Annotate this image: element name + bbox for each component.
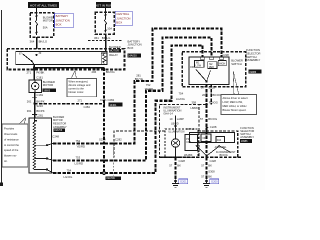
svg-text:C228: C228 <box>179 159 186 163</box>
svg-text:Allows driver to select: Allows driver to select <box>223 96 248 100</box>
battery junction box main enclosure (dashed) <box>7 49 124 70</box>
svg-text:LG/OG: LG/OG <box>176 97 185 101</box>
svg-text:358: 358 <box>192 100 197 104</box>
svg-text:G201: G201 <box>180 180 187 184</box>
wire 364 BK/LG <box>30 37 48 49</box>
svg-text:361: 361 <box>94 36 99 40</box>
label BLOWER SWITCH <box>231 58 243 65</box>
wire 296 BK/OG relay branch down <box>92 68 115 174</box>
node relay output junction <box>33 67 35 69</box>
callout: provides three levels of resistance <box>2 118 28 168</box>
svg-text:A/C PANEL: A/C PANEL <box>215 146 228 149</box>
svg-text:S216: S216 <box>36 104 43 108</box>
svg-text:19A706: 19A706 <box>54 129 63 132</box>
svg-text:BK/LG: BK/LG <box>102 36 111 40</box>
svg-text:BK: BK <box>208 164 212 168</box>
relay contact 30 <box>35 54 37 56</box>
svg-text:361: 361 <box>27 109 32 113</box>
connector C270 line across wire 361 <box>88 39 122 41</box>
fuse F1.11 50A <box>36 14 55 36</box>
wire 57 through selector <box>206 131 208 157</box>
power tag HOT AT ALL TIMES <box>28 2 59 8</box>
connector C228 row (dashed) <box>160 153 242 157</box>
callout: when energized directs voltage <box>67 71 97 97</box>
svg-text:GHA-14: GHA-14 <box>163 112 173 116</box>
svg-text:S308: S308 <box>208 169 215 173</box>
svg-text:271: 271 <box>27 71 32 75</box>
selector sub box 1 <box>201 134 211 142</box>
ground G201 (lamp) <box>172 179 188 187</box>
connector arrow into selector <box>205 125 208 128</box>
fuse 10A <box>105 13 113 33</box>
wire relay output to motor <box>33 64 35 80</box>
svg-text:BOX: BOX <box>128 46 134 50</box>
terminal marks at switch inputs <box>201 57 223 60</box>
node bottom-left frame dot <box>0 183 3 186</box>
svg-text:S230: S230 <box>99 137 106 141</box>
splice S216 dot on motor wire <box>33 103 35 105</box>
svg-text:MOTOR: MOTOR <box>43 83 53 87</box>
svg-text:261: 261 <box>27 99 32 103</box>
svg-text:blower mo-: blower mo- <box>4 154 17 158</box>
svg-text:752: 752 <box>76 139 81 143</box>
svg-text:57: 57 <box>169 164 172 168</box>
resistor tap 3 <box>35 169 54 174</box>
svg-text:271: 271 <box>78 99 83 103</box>
svg-text:directs voltage and: directs voltage and <box>69 83 91 87</box>
label FUNCTION SELECTOR SWITCH ASSEMBLY (bottom right) w/ tag <box>240 126 254 143</box>
svg-text:LB/RD: LB/RD <box>191 106 199 110</box>
blower switch body <box>189 57 229 84</box>
wire 271 PK/BK motor feed labels <box>27 71 45 80</box>
svg-text:19986: 19986 <box>249 71 257 74</box>
svg-text:19986: 19986 <box>241 140 248 143</box>
svg-text:three levels: three levels <box>4 132 18 136</box>
svg-text:C228: C228 <box>210 125 217 129</box>
terminal M2 MED <box>208 62 217 69</box>
wire 57 blower switch output <box>201 84 215 104</box>
wire 19 LB/RD lamp feed <box>170 116 185 139</box>
svg-text:BK/PK: BK/PK <box>36 109 44 113</box>
selector texts <box>215 146 236 154</box>
svg-text:MOTOR: MOTOR <box>43 19 53 23</box>
svg-text:blower motor.: blower motor. <box>69 90 85 94</box>
svg-text:LOW, MED LOW,: LOW, MED LOW, <box>223 100 243 104</box>
svg-text:BOX: BOX <box>116 21 122 25</box>
svg-text:BLOWER: BLOWER <box>53 115 64 119</box>
svg-text:ILLUMINATION: ILLUMINATION <box>169 130 185 133</box>
svg-text:OFF LO: OFF LO <box>186 128 195 131</box>
svg-text:19805: 19805 <box>43 89 50 92</box>
wire C labels 754 LG/OG <box>64 168 73 178</box>
connector C248 line (resistor box right edge, dashed) <box>52 118 60 173</box>
svg-text:262: 262 <box>202 93 207 97</box>
svg-text:C228: C228 <box>223 53 230 57</box>
svg-text:C281 C282: C281 C282 <box>100 98 115 102</box>
terminal HIGH <box>218 61 226 66</box>
wire 57 BK switch ground w/ splice S308 <box>201 157 216 181</box>
wire stub from HOT IN RUN tag <box>105 8 107 12</box>
switch wiper <box>196 70 211 83</box>
wire 57 BK lamp ground <box>169 157 185 181</box>
wire A labels 281 BK/YE <box>135 74 143 82</box>
function selector switch body <box>190 133 235 143</box>
svg-text:MOTOR: MOTOR <box>110 50 119 53</box>
svg-text:57: 57 <box>201 86 205 90</box>
svg-text:of resistance: of resistance <box>4 137 19 141</box>
svg-text:speed of the: speed of the <box>4 148 19 152</box>
node label BATTERY JUNCTION BOX (blue callout) <box>55 13 74 28</box>
svg-text:BK/YE: BK/YE <box>135 77 143 81</box>
svg-text:BK: BK <box>177 164 181 168</box>
svg-text:MOTOR: MOTOR <box>53 118 63 122</box>
svg-text:current to the: current to the <box>69 86 85 90</box>
svg-text:PK/BK: PK/BK <box>36 71 44 75</box>
svg-text:OFF: OFF <box>190 66 195 69</box>
battery junction box (fuse F1.11 enclosure, dashed) <box>30 13 54 38</box>
frame left edge <box>0 10 2 185</box>
svg-text:LOW: LOW <box>196 65 202 68</box>
reference tag under wire C <box>105 176 121 180</box>
svg-text:C284: C284 <box>84 105 91 109</box>
blower switch enclosure (dashed) <box>182 52 246 87</box>
svg-text:Provides: Provides <box>4 127 15 131</box>
svg-text:MED HIGH, or HIGH: MED HIGH, or HIGH <box>223 104 247 108</box>
svg-text:LG/RD: LG/RD <box>75 162 84 166</box>
svg-text:HOT AT ALL TIMES: HOT AT ALL TIMES <box>30 3 57 7</box>
wire 57 BK/OG down to selector <box>200 105 217 131</box>
label INSTRUMENT ILLUMINATION <box>163 106 181 116</box>
wire B labels 753 LG/RD <box>75 155 84 165</box>
svg-text:RD/OG: RD/OG <box>209 101 218 105</box>
central junction box (fuse enclosure, dashed) <box>95 12 114 34</box>
svg-text:SELECTOR: SELECTOR <box>246 51 260 55</box>
node junction wire 296 joins wire C <box>103 172 106 175</box>
svg-text:YE/RD: YE/RD <box>77 145 86 149</box>
svg-text:SWITCH: SWITCH <box>246 55 257 59</box>
relay armature <box>23 54 32 61</box>
svg-text:C181: C181 <box>36 93 43 97</box>
illumination lamp <box>171 139 179 147</box>
svg-text:FLR: FLR <box>217 140 222 142</box>
label FUNCTION SELECTOR SWITCH ASSEMBLY (top right) w/ tag <box>246 48 262 74</box>
blower motor resistor assembly box <box>29 118 52 173</box>
splice S230 on wire A <box>99 137 122 144</box>
instrument illumination enclosure (dashed) <box>160 105 200 158</box>
svg-text:754: 754 <box>67 168 72 172</box>
svg-text:BK: BK <box>208 175 212 179</box>
svg-text:LB/RD: LB/RD <box>171 121 179 125</box>
svg-text:RELAY: RELAY <box>109 53 118 57</box>
lamp feed arrow <box>174 126 177 129</box>
printed circuit sub box <box>185 135 198 151</box>
resistor tap 1 <box>35 144 54 147</box>
callout: allows driver to select speeds <box>221 71 257 115</box>
svg-text:BLOWER: BLOWER <box>231 58 243 62</box>
svg-text:ASSEMBLY: ASSEMBLY <box>53 125 67 129</box>
svg-text:HOT IN RUN: HOT IN RUN <box>95 3 112 7</box>
svg-text:57: 57 <box>201 164 204 168</box>
svg-text:BLOWER: BLOWER <box>109 45 121 49</box>
svg-text:364: 364 <box>30 40 35 44</box>
svg-text:57: 57 <box>200 117 204 121</box>
resistor tap 2 <box>35 158 54 161</box>
wire C labels 754 upper <box>176 92 185 101</box>
svg-text:C281: C281 <box>36 113 43 117</box>
svg-text:FUNCTION: FUNCTION <box>246 48 260 52</box>
connector C281 text and tag on wire 296 <box>100 98 123 107</box>
wire lamp to ground row <box>175 147 177 157</box>
svg-text:296: 296 <box>92 70 97 74</box>
relay output pin <box>31 60 33 62</box>
wire 752 YE/RD resistor M1 to switch (staircase A) <box>53 29 222 144</box>
svg-text:C282: C282 <box>115 137 122 141</box>
svg-text:BK/OG: BK/OG <box>212 93 221 97</box>
svg-text:ASSEMBLY: ASSEMBLY <box>246 58 260 62</box>
leader from S230 to reference tag <box>113 144 115 177</box>
svg-text:C228: C228 <box>210 159 217 163</box>
svg-text:19A706: 19A706 <box>106 177 115 180</box>
wire 754 LG/OG resistor HI to switch (staircase C) <box>53 45 203 173</box>
svg-text:HIGH: HIGH <box>219 62 225 65</box>
illumination inner box (dashed) <box>165 129 198 157</box>
svg-text:BK/PK: BK/PK <box>36 99 44 103</box>
label BLOWER MOTOR RESISTOR ASSEMBLY w/ tag <box>53 115 67 132</box>
blower motor <box>29 80 42 92</box>
svg-text:G200: G200 <box>211 180 218 184</box>
svg-text:C248: C248 <box>52 134 59 138</box>
svg-text:14A003: 14A003 <box>128 54 137 57</box>
power tag HOT IN RUN <box>95 2 112 8</box>
svg-text:When energized,: When energized, <box>69 80 89 84</box>
svg-text:10A: 10A <box>107 26 112 30</box>
svg-text:14401: 14401 <box>110 104 118 107</box>
svg-text:SWITCH: SWITCH <box>231 62 242 66</box>
terminal M1 LOW <box>195 61 205 68</box>
svg-text:57: 57 <box>201 175 204 179</box>
function selector switch enclosure (dashed) <box>114 131 238 157</box>
svg-text:YE/RD: YE/RD <box>145 87 154 91</box>
label BLOWER MOTOR RELAY <box>109 45 121 57</box>
svg-text:ASSEMBLY: ASSEMBLY <box>240 135 254 139</box>
svg-text:BOX: BOX <box>56 23 62 27</box>
svg-text:LAMP: LAMP <box>177 117 184 121</box>
label BLOWER MOTOR w/ tag <box>43 80 57 92</box>
wire stub from HOT AT ALL TIMES tag <box>36 8 38 13</box>
blower motor relay K35 body <box>16 51 107 64</box>
svg-text:BK/LG: BK/LG <box>39 40 48 44</box>
wire motor to resistor w/ C181 S216 labels <box>27 92 45 118</box>
relay coil <box>101 53 107 64</box>
svg-text:to control the: to control the <box>4 143 20 147</box>
svg-text:754: 754 <box>179 92 184 96</box>
node label CENTRAL JUNCTION BOX (blue callout) <box>115 11 132 26</box>
svg-text:C181: C181 <box>36 75 43 79</box>
svg-text:Blower Motor speed.: Blower Motor speed. <box>223 108 247 112</box>
selector sub box 2 <box>216 137 225 143</box>
svg-text:753: 753 <box>76 155 81 159</box>
wire 361 from fuse to relay coil <box>94 34 111 52</box>
wire 271 from splice S216 to connector C282 (dashed branch) <box>35 99 106 110</box>
wire stub 262 BK/OG from switch <box>202 84 221 104</box>
svg-text:tor.: tor. <box>4 159 8 163</box>
wire relay output branch (horizontal) <box>34 67 104 69</box>
resistor element (zigzag) <box>33 118 37 170</box>
svg-text:WH/BK: WH/BK <box>184 153 193 157</box>
svg-text:MED: MED <box>209 66 215 69</box>
ground G200 (switch) <box>203 179 219 187</box>
wire 358 feed to switch (dashed) with node <box>191 100 218 110</box>
svg-text:BK/OG: BK/OG <box>106 70 115 74</box>
svg-text:LG/OG: LG/OG <box>64 175 73 179</box>
wire 753 LG/RD resistor M2 to switch (staircase B) <box>53 37 212 160</box>
selector wiper V <box>196 145 231 155</box>
svg-text:RESISTOR: RESISTOR <box>53 122 66 126</box>
wire B labels 752 YE/RD upper <box>145 83 154 91</box>
svg-text:BK/OG: BK/OG <box>220 153 228 157</box>
wire A labels 752 YE/RD <box>76 139 86 149</box>
label BATTERY JUNCTION BOX w/ tag <box>127 39 141 57</box>
svg-text:50A: 50A <box>43 26 48 30</box>
svg-text:BK/OG: BK/OG <box>208 117 217 121</box>
